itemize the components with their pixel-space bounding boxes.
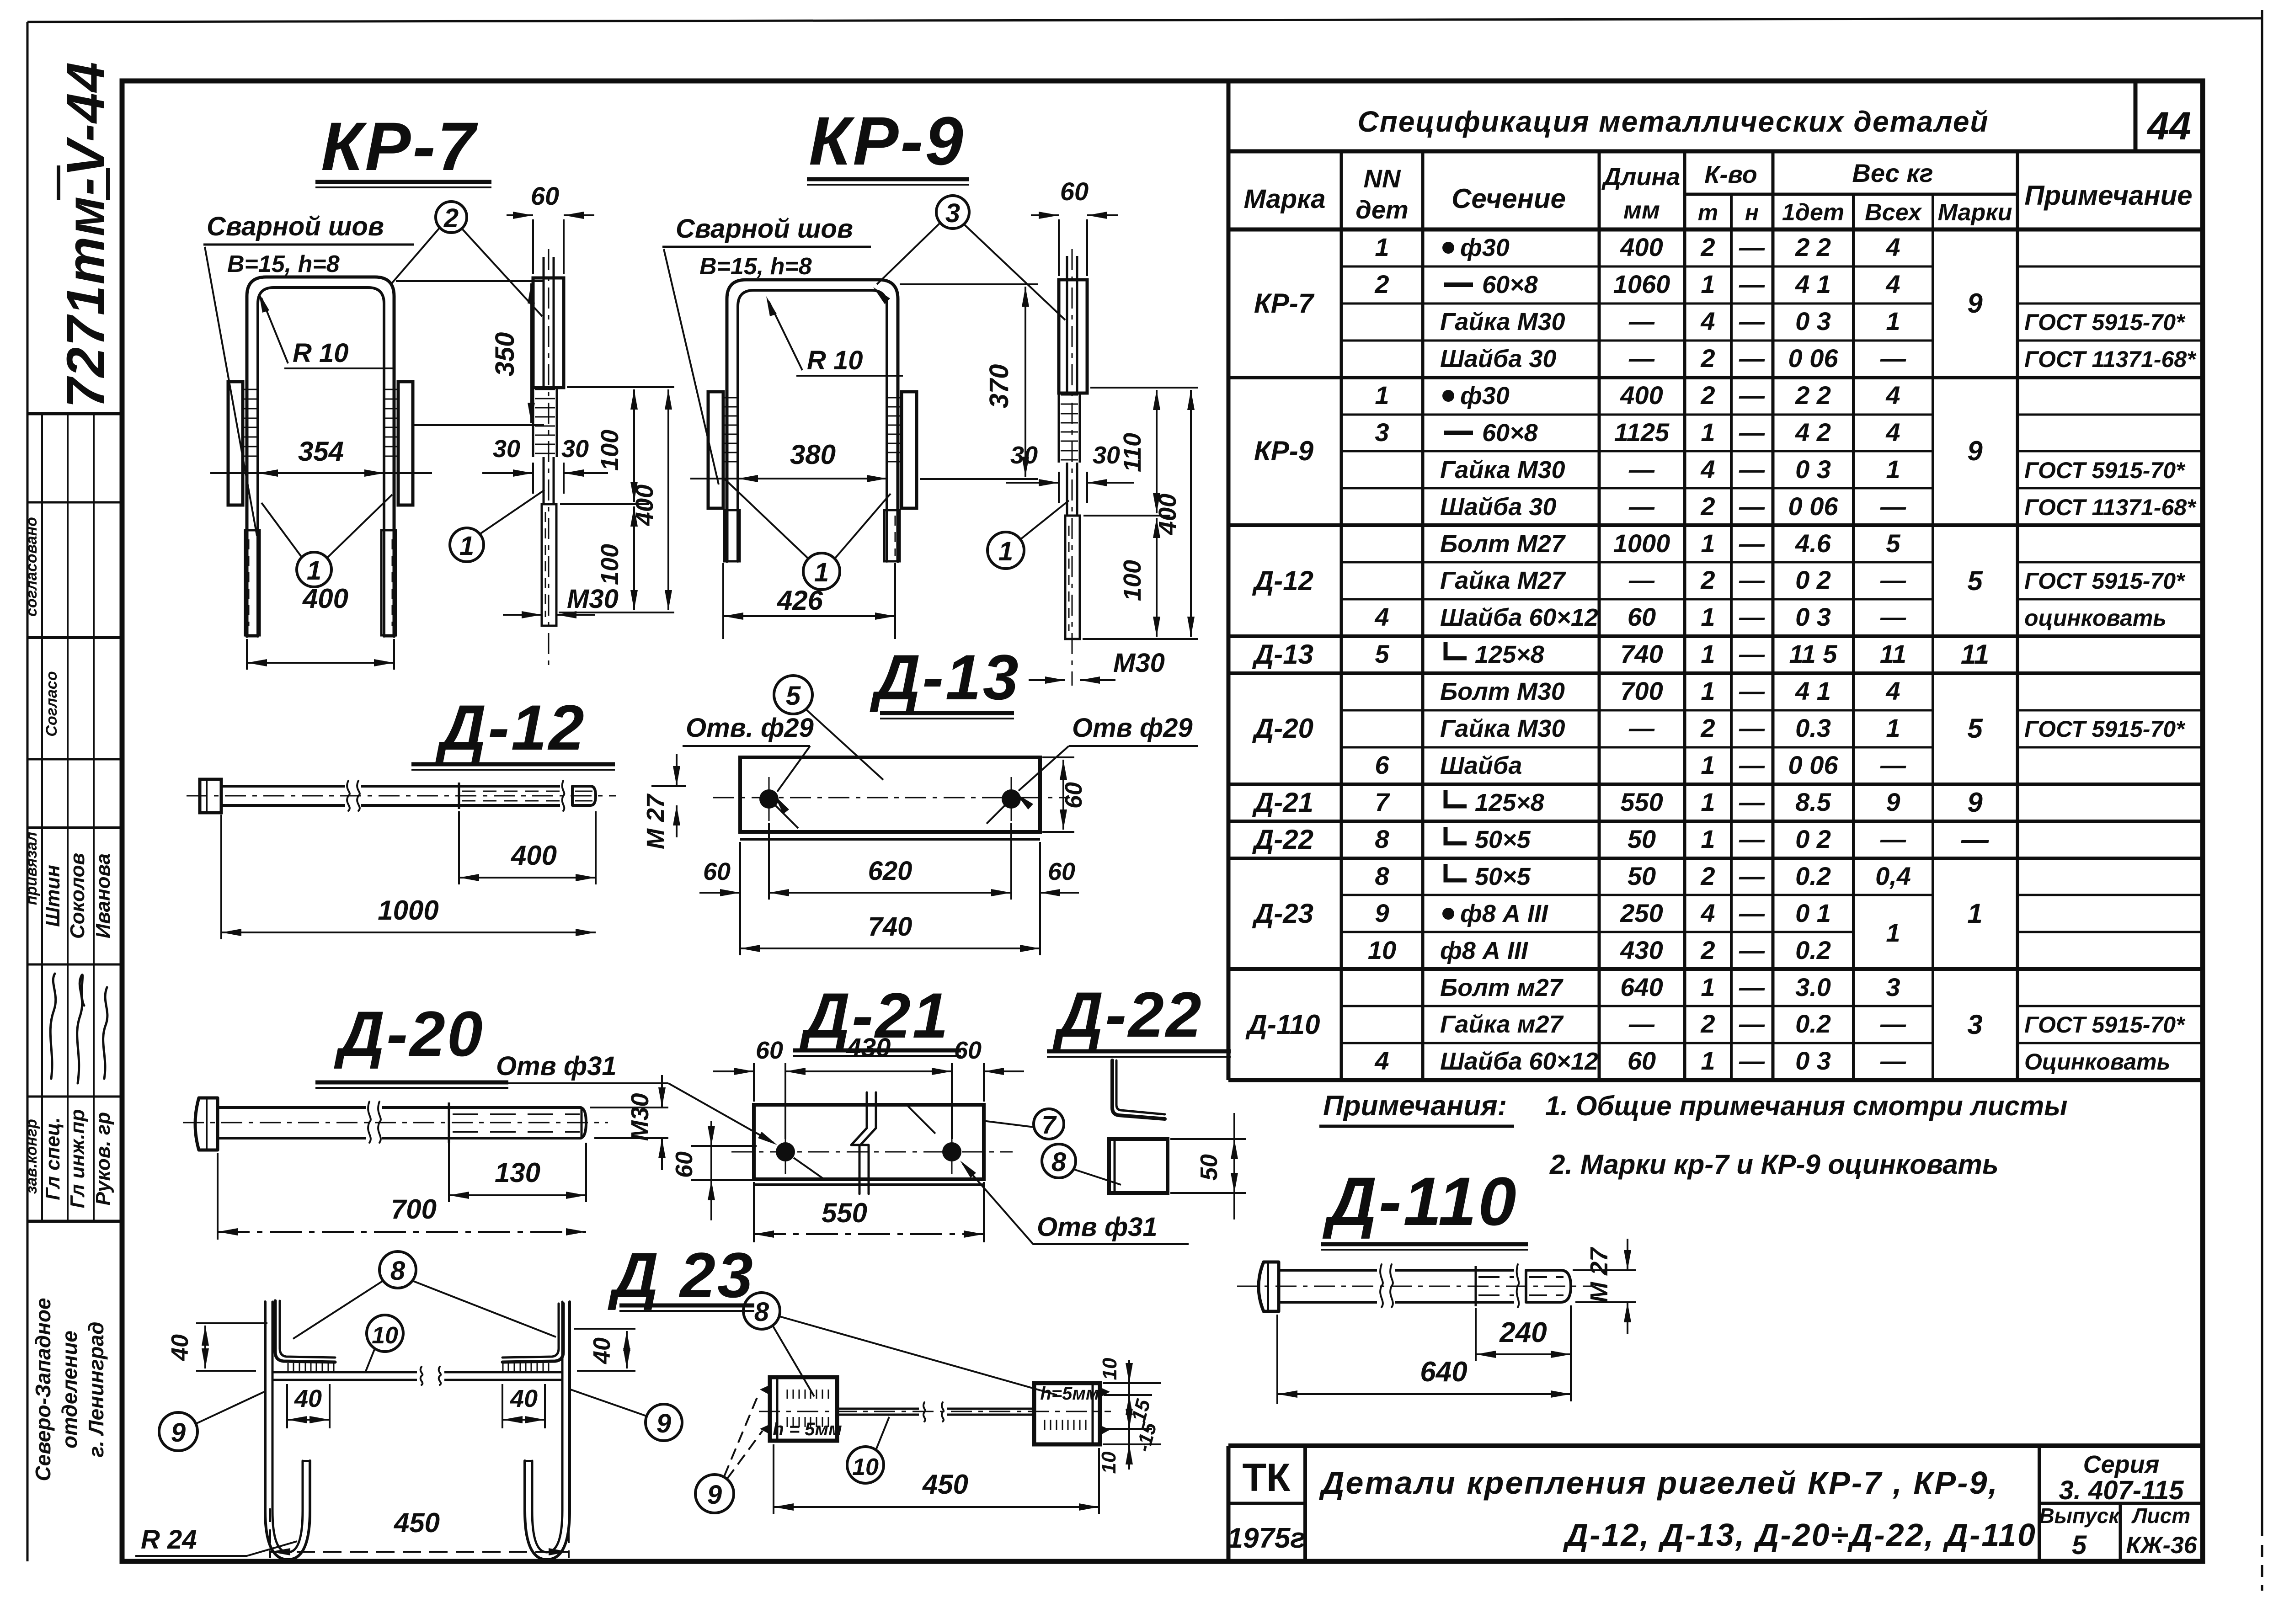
svg-text:1: 1 — [1701, 1046, 1715, 1075]
D-12 dim 400 — [458, 811, 460, 884]
svg-text:100: 100 — [1119, 560, 1146, 601]
svg-text:1: 1 — [1886, 455, 1900, 484]
svg-text:40: 40 — [167, 1334, 193, 1361]
D-23 pos circle 10 front — [367, 1315, 403, 1352]
D-13 dim 740 — [740, 948, 1040, 949]
svg-text:5: 5 — [1375, 639, 1389, 668]
svg-text:60: 60 — [1060, 177, 1089, 206]
D-23 left angle (det 8) — [275, 1301, 335, 1362]
svg-text:Гайка М30: Гайка М30 — [1440, 456, 1565, 484]
svg-text:5: 5 — [1886, 529, 1900, 558]
svg-text:7271тм-V-44: 7271тм-V-44 — [56, 61, 116, 408]
svg-text:0 3: 0 3 — [1795, 307, 1831, 335]
svg-text:1: 1 — [1886, 918, 1900, 947]
svg-text:3: 3 — [1375, 418, 1389, 447]
svg-text:Д-12: Д-12 — [1252, 565, 1313, 596]
svg-text:0 06: 0 06 — [1788, 751, 1839, 779]
svg-text:1: 1 — [1701, 418, 1715, 447]
KP-9 left threaded tip — [724, 510, 740, 561]
KP-9 side threaded bottom — [1065, 516, 1080, 639]
svg-text:—: — — [1739, 899, 1765, 927]
svg-text:5: 5 — [2072, 1530, 2087, 1560]
KP-7 side dim 100 bottom — [559, 612, 674, 613]
svg-text:Д-23: Д-23 — [1252, 898, 1313, 929]
svg-text:—: — — [1739, 344, 1765, 373]
svg-text:430: 430 — [1620, 936, 1663, 964]
svg-text:60: 60 — [1061, 782, 1087, 809]
svg-text:50: 50 — [1628, 825, 1656, 853]
svg-text:4: 4 — [1885, 233, 1900, 261]
svg-text:100: 100 — [596, 430, 624, 471]
svg-text:1: 1 — [1701, 788, 1715, 816]
svg-text:0,4: 0,4 — [1875, 862, 1911, 890]
svg-text:дет: дет — [1355, 195, 1409, 224]
svg-text:—: — — [1739, 973, 1765, 1001]
KP-7 side dim 100 top — [567, 386, 674, 388]
svg-text:4: 4 — [1374, 1046, 1389, 1075]
svg-text:700: 700 — [391, 1194, 437, 1225]
svg-text:Шайба: Шайба — [1440, 752, 1522, 779]
sheet outer thin border — [27, 18, 2262, 22]
svg-text:—: — — [1961, 824, 1989, 855]
D-23 side right block — [1034, 1383, 1100, 1444]
svg-text:—: — — [1628, 455, 1655, 484]
svg-text:отделение: отделение — [58, 1331, 81, 1448]
svg-text:—: — — [1739, 455, 1765, 484]
svg-text:1: 1 — [459, 531, 474, 561]
KP-7 right strip plate (det 2) — [398, 382, 413, 505]
svg-text:3: 3 — [945, 198, 960, 228]
svg-text:3: 3 — [1967, 1009, 1982, 1040]
svg-text:—: — — [1739, 529, 1765, 558]
svg-text:740: 740 — [1620, 639, 1663, 668]
svg-text:КР-7: КР-7 — [321, 108, 478, 185]
svg-text:3. 407-115: 3. 407-115 — [2059, 1475, 2184, 1505]
svg-text:4: 4 — [1700, 307, 1715, 335]
svg-text:Выпуск: Выпуск — [2039, 1504, 2120, 1528]
svg-text:9: 9 — [1967, 288, 1983, 319]
svg-text:Всех: Всех — [1865, 199, 1922, 226]
KP-7 left strip plate (det 2) — [228, 382, 243, 505]
svg-text:Д-20: Д-20 — [1252, 713, 1313, 744]
svg-text:8: 8 — [1375, 862, 1389, 890]
svg-text:10: 10 — [1099, 1358, 1121, 1380]
svg-text:4 1: 4 1 — [1795, 676, 1831, 705]
svg-text:0 3: 0 3 — [1795, 602, 1831, 631]
svg-text:60: 60 — [703, 858, 731, 885]
svg-text:370: 370 — [984, 364, 1014, 409]
svg-text:60: 60 — [954, 1037, 982, 1064]
svg-text:КР-7: КР-7 — [1254, 288, 1315, 319]
svg-text:4: 4 — [1374, 602, 1389, 631]
svg-text:Болт м27: Болт м27 — [1440, 974, 1564, 1001]
svg-text:Д-12, Д-13, Д-20÷Д-22, Д-110: Д-12, Д-13, Д-20÷Д-22, Д-110 — [1563, 1517, 2037, 1553]
svg-text:0 06: 0 06 — [1788, 492, 1839, 521]
spec table outer — [1227, 81, 1231, 1080]
svg-text:Гл инж.пр: Гл инж.пр — [66, 1109, 89, 1209]
svg-text:Отв. ф29: Отв. ф29 — [686, 713, 814, 743]
svg-text:ГОСТ 11371-68*: ГОСТ 11371-68* — [2024, 495, 2197, 520]
svg-text:Гайка М30: Гайка М30 — [1440, 308, 1565, 335]
KP-9 U-bolt front view outline — [727, 280, 898, 561]
svg-text:ф8 А III: ф8 А III — [1440, 937, 1528, 964]
KP-9 dim 370 — [900, 283, 1038, 285]
svg-text:—: — — [1739, 676, 1765, 705]
D-20 dim 130 — [448, 1143, 450, 1202]
D-13 right hole — [1002, 789, 1021, 809]
stamp strip row lines — [27, 412, 122, 415]
svg-text:ГОСТ 5915-70*: ГОСТ 5915-70* — [2024, 568, 2186, 594]
svg-text:1: 1 — [1701, 676, 1715, 705]
svg-text:1: 1 — [998, 537, 1013, 566]
svg-text:60: 60 — [1048, 858, 1075, 885]
svg-text:7: 7 — [1375, 788, 1390, 816]
svg-text:640: 640 — [1620, 973, 1663, 1001]
svg-text:50: 50 — [1628, 862, 1656, 890]
KP-7 side pos circle 1 — [450, 528, 484, 562]
KP-9 side dim 400 — [1190, 390, 1192, 637]
svg-text:6: 6 — [1375, 751, 1389, 779]
svg-text:Отв ф31: Отв ф31 — [496, 1051, 617, 1081]
KP-7 pos circle 1 front — [297, 552, 331, 587]
svg-text:250: 250 — [1620, 899, 1663, 927]
svg-text:4 2: 4 2 — [1795, 418, 1831, 447]
D-21 centerline — [731, 1151, 1013, 1153]
D-23 side right block hatch — [1044, 1420, 1046, 1430]
svg-text:Д-13: Д-13 — [870, 641, 1020, 713]
svg-text:—: — — [1739, 788, 1765, 816]
D-20 bolt shank — [218, 1106, 366, 1109]
svg-text:М30: М30 — [1113, 648, 1165, 678]
svg-text:2: 2 — [1700, 936, 1715, 964]
svg-text:Гайка М27: Гайка М27 — [1440, 567, 1567, 594]
svg-text:0.2: 0.2 — [1795, 862, 1831, 890]
svg-text:8: 8 — [754, 1297, 769, 1327]
svg-text:ГОСТ 5915-70*: ГОСТ 5915-70* — [2024, 458, 2186, 483]
svg-text:Марка: Марка — [1243, 184, 1325, 214]
D-12 shank break — [347, 781, 350, 811]
svg-text:—: — — [1739, 936, 1765, 964]
D-110 dim 240 — [1475, 1308, 1477, 1361]
svg-text:350: 350 — [490, 332, 520, 377]
svg-text:R 10: R 10 — [293, 338, 349, 368]
svg-text:60: 60 — [1628, 1046, 1656, 1075]
KP-9 right strip plate — [902, 392, 917, 508]
svg-text:Примечания:: Примечания: — [1323, 1090, 1507, 1122]
svg-text:2 2: 2 2 — [1795, 381, 1831, 410]
D-23 pos circle 9 left — [159, 1412, 197, 1451]
svg-text:1дет: 1дет — [1782, 199, 1844, 226]
svg-text:Д-21: Д-21 — [1252, 787, 1313, 818]
D-23 side left block — [770, 1377, 837, 1441]
D-13 centerline — [713, 797, 1070, 799]
svg-text:0.2: 0.2 — [1795, 1009, 1831, 1038]
svg-text:4: 4 — [1885, 381, 1900, 410]
svg-text:4: 4 — [1700, 455, 1715, 484]
stamp strip column lines — [41, 414, 43, 1221]
svg-text:0 06: 0 06 — [1788, 344, 1839, 373]
D-23 right J-hook (det 9) — [525, 1302, 570, 1560]
D-22 dim 50 — [1170, 1138, 1246, 1140]
svg-text:1: 1 — [1967, 898, 1982, 929]
D-110 bolt head — [1259, 1262, 1279, 1311]
D-21 left hole — [776, 1142, 795, 1161]
svg-text:125×8: 125×8 — [1475, 789, 1544, 816]
svg-text:Шайба 60×12: Шайба 60×12 — [1440, 1048, 1598, 1075]
svg-text:4: 4 — [1885, 270, 1900, 298]
svg-text:Сварной шов: Сварной шов — [676, 214, 853, 244]
svg-text:—: — — [1739, 639, 1765, 668]
KP-9 left strip plate — [708, 392, 723, 508]
svg-text:9: 9 — [1375, 899, 1389, 927]
D-13 left hole — [759, 789, 779, 809]
KP-9 thread hatch right — [887, 397, 902, 399]
svg-text:100: 100 — [596, 544, 624, 585]
svg-text:ГОСТ 11371-68*: ГОСТ 11371-68* — [2024, 346, 2197, 372]
svg-text:620: 620 — [868, 856, 913, 886]
svg-text:NN: NN — [1364, 164, 1401, 193]
svg-text:1: 1 — [814, 558, 829, 587]
svg-text:30: 30 — [1093, 442, 1120, 469]
svg-text:400: 400 — [631, 485, 658, 526]
svg-text:44: 44 — [2146, 104, 2191, 148]
svg-text:60: 60 — [756, 1037, 783, 1064]
svg-text:354: 354 — [298, 436, 344, 467]
svg-text:400: 400 — [1154, 494, 1181, 535]
D-12 centerline — [187, 795, 616, 797]
svg-text:КР-9: КР-9 — [809, 102, 965, 179]
svg-text:Северо-Западное: Северо-Западное — [31, 1298, 55, 1481]
svg-text:1125: 1125 — [1614, 418, 1670, 447]
svg-text:Д-110: Д-110 — [1245, 1009, 1320, 1040]
svg-text:30: 30 — [561, 435, 589, 463]
svg-text:1060: 1060 — [1613, 270, 1670, 298]
svg-text:Шайба 30: Шайба 30 — [1440, 345, 1556, 373]
svg-text:согласовано: согласовано — [23, 517, 40, 617]
svg-text:—: — — [1739, 602, 1765, 631]
KP-7 side view threaded bottom — [542, 504, 556, 626]
svg-text:740: 740 — [868, 912, 913, 942]
KP-9 side dim 100 — [1083, 638, 1198, 640]
svg-text:B=15, h=8: B=15, h=8 — [227, 251, 340, 277]
KP-7 side view lower rod — [543, 457, 545, 504]
KP-7 pos circle 2 — [436, 202, 467, 233]
D-23 side left block hatch — [787, 1390, 788, 1399]
svg-text:ГОСТ 5915-70*: ГОСТ 5915-70* — [2024, 309, 2186, 335]
D-23 pos circle 9 right — [646, 1404, 682, 1441]
svg-text:1975г: 1975г — [1227, 1523, 1305, 1554]
KP-7 left threaded tip — [245, 530, 260, 635]
svg-text:h = 5мм: h = 5мм — [773, 1419, 842, 1439]
D-21 plate break — [851, 1092, 867, 1194]
svg-text:Д-13: Д-13 — [1252, 639, 1313, 670]
svg-text:2: 2 — [1700, 381, 1715, 410]
D-22 angle profile — [1112, 1060, 1165, 1119]
svg-text:1: 1 — [307, 556, 321, 586]
svg-text:Д-110: Д-110 — [1322, 1163, 1518, 1240]
svg-text:Серия: Серия — [2083, 1451, 2160, 1478]
KP-9 thread hatch left — [723, 397, 738, 399]
svg-text:мм: мм — [1623, 197, 1660, 224]
svg-text:R 24: R 24 — [141, 1525, 197, 1555]
svg-text:2: 2 — [1700, 565, 1715, 594]
svg-text:11 5: 11 5 — [1789, 639, 1838, 668]
svg-text:5: 5 — [1967, 565, 1983, 596]
svg-text:М30: М30 — [567, 584, 619, 614]
svg-text:0 3: 0 3 — [1795, 1046, 1831, 1075]
svg-text:Д-22: Д-22 — [1252, 824, 1313, 855]
svg-text:—: — — [1628, 492, 1655, 521]
svg-text:60: 60 — [531, 181, 559, 210]
svg-text:К-во: К-во — [1704, 161, 1757, 188]
svg-text:60: 60 — [671, 1151, 698, 1178]
svg-text:2 2: 2 2 — [1795, 233, 1831, 261]
svg-text:1: 1 — [1375, 381, 1389, 410]
D-23 side right dim chain — [1103, 1382, 1161, 1384]
svg-text:—: — — [1739, 418, 1765, 447]
svg-text:2: 2 — [1374, 270, 1389, 298]
svg-text:450: 450 — [394, 1507, 440, 1538]
svg-text:—: — — [1880, 492, 1906, 521]
svg-text:2: 2 — [1700, 492, 1715, 521]
svg-text:125×8: 125×8 — [1475, 641, 1544, 668]
D-13 dim 60 vertical — [1042, 756, 1074, 758]
svg-text:4: 4 — [1700, 899, 1715, 927]
svg-text:2. Марки кр-7 и КР-9 оцинко: 2. Марки кр-7 и КР-9 оцинковать — [1549, 1149, 1999, 1180]
D-21 top dims 60 430 60 — [753, 1063, 755, 1102]
svg-text:9: 9 — [1967, 787, 1983, 818]
svg-text:—: — — [1628, 713, 1655, 742]
svg-text:400: 400 — [302, 583, 348, 614]
svg-text:2: 2 — [443, 203, 459, 233]
svg-text:400: 400 — [511, 840, 557, 871]
svg-text:Болт М30: Болт М30 — [1440, 678, 1565, 705]
svg-text:1: 1 — [1701, 825, 1715, 853]
D-110 threaded section — [1475, 1266, 1477, 1306]
svg-text:11: 11 — [1961, 639, 1989, 670]
D-13 bottom dims 60 620 60 — [739, 842, 741, 955]
svg-text:B=15, h=8: B=15, h=8 — [699, 253, 812, 280]
D-13 pos circle 5 — [774, 676, 812, 714]
D-20 bolt head — [195, 1098, 218, 1150]
D-23 side pos circle 9 — [695, 1475, 734, 1513]
D-20 dim 700 — [217, 1153, 219, 1240]
svg-text:КЖ-36: КЖ-36 — [2126, 1532, 2197, 1559]
KP-7 thread hatch right leg — [384, 389, 398, 390]
table header grid — [1228, 228, 2203, 232]
svg-text:0.3: 0.3 — [1795, 713, 1831, 742]
svg-text:30: 30 — [1010, 442, 1038, 469]
svg-text:5: 5 — [1967, 713, 1983, 744]
svg-text:240: 240 — [1499, 1317, 1547, 1348]
KP-7 right threaded tip — [381, 530, 396, 635]
svg-text:400: 400 — [1620, 381, 1663, 410]
svg-text:—: — — [1628, 307, 1655, 335]
svg-text:550: 550 — [822, 1198, 867, 1228]
svg-text:ф8 А III: ф8 А III — [1460, 900, 1548, 927]
svg-text:9: 9 — [1967, 436, 1983, 466]
KP-9 side view rod — [1066, 256, 1068, 393]
svg-text:—: — — [1628, 1009, 1655, 1038]
D-21 pos circle 7 — [1034, 1109, 1064, 1139]
svg-text:9: 9 — [656, 1409, 671, 1438]
svg-text:—: — — [1880, 751, 1906, 779]
svg-text:—: — — [1880, 602, 1906, 631]
svg-text:1: 1 — [1701, 973, 1715, 1001]
KP-7 thread hatch left leg — [243, 389, 258, 390]
svg-text:ТК: ТК — [1242, 1456, 1291, 1500]
svg-text:1. Общие примечания смотри: 1. Общие примечания смотри листы — [1545, 1091, 2067, 1121]
svg-text:1: 1 — [1701, 639, 1715, 668]
svg-text:2: 2 — [1700, 233, 1715, 261]
svg-text:оцинковать: оцинковать — [2024, 605, 2167, 631]
D-22 pos circle 8 and square (det 8) — [1042, 1144, 1076, 1178]
D-21 plate — [754, 1105, 984, 1179]
svg-text:50×5: 50×5 — [1475, 826, 1531, 853]
svg-text:9: 9 — [707, 1480, 722, 1510]
svg-text:М 27: М 27 — [642, 793, 669, 849]
svg-text:40: 40 — [510, 1385, 538, 1412]
svg-text:40: 40 — [589, 1337, 615, 1364]
svg-text:1000: 1000 — [378, 895, 438, 926]
svg-text:0.2: 0.2 — [1795, 936, 1831, 964]
svg-text:Иванова: Иванова — [92, 853, 114, 938]
svg-text:М30: М30 — [626, 1093, 654, 1141]
svg-text:зав.конгр: зав.конгр — [23, 1119, 40, 1194]
svg-text:Д-22: Д-22 — [1052, 979, 1203, 1050]
svg-text:640: 640 — [1420, 1356, 1467, 1388]
svg-text:0 3: 0 3 — [1795, 455, 1831, 484]
svg-text:—: — — [1739, 713, 1765, 742]
svg-text:—: — — [1739, 270, 1765, 298]
svg-text:430: 430 — [846, 1033, 891, 1063]
D-23 side dim 450 — [773, 1444, 774, 1514]
svg-text:2: 2 — [1700, 1009, 1715, 1038]
svg-text:450: 450 — [922, 1469, 968, 1500]
D-23 tie rod (det 10) — [272, 1371, 417, 1374]
D-23 side pos circle 8 — [743, 1293, 780, 1329]
svg-text:130: 130 — [495, 1157, 540, 1188]
D-23 dim 40 left vertical — [196, 1322, 267, 1324]
svg-text:Гайка М30: Гайка М30 — [1440, 715, 1565, 742]
svg-text:—: — — [1739, 492, 1765, 521]
D-12 threaded section — [458, 783, 460, 809]
svg-text:1: 1 — [1375, 233, 1389, 261]
svg-text:40: 40 — [294, 1385, 322, 1412]
KP-9 side view nut hatch — [1061, 394, 1078, 396]
D-23 dim 40 left inner — [286, 1384, 288, 1428]
svg-text:1: 1 — [1701, 751, 1715, 779]
svg-text:9: 9 — [171, 1418, 186, 1448]
D-13 plate — [740, 757, 1040, 832]
svg-text:426: 426 — [777, 585, 823, 616]
spec table title row line — [1228, 149, 2203, 154]
svg-text:R 10: R 10 — [807, 346, 863, 375]
KP-9 pos circle 1 front — [803, 553, 840, 590]
svg-text:—: — — [1739, 1046, 1765, 1075]
svg-text:3: 3 — [1886, 973, 1900, 1001]
svg-text:—: — — [1880, 1046, 1906, 1075]
D-23 left J-hook (det 9) — [265, 1302, 310, 1560]
svg-text:8: 8 — [390, 1256, 406, 1286]
D-23 dim 40 right inner — [502, 1384, 503, 1428]
svg-text:8.5: 8.5 — [1795, 788, 1831, 816]
svg-text:10: 10 — [1368, 936, 1396, 964]
svg-text:4: 4 — [1885, 676, 1900, 705]
KP-9 dim 426 — [722, 563, 724, 639]
svg-text:—: — — [1628, 565, 1655, 594]
svg-text:М 27: М 27 — [1585, 1246, 1613, 1303]
